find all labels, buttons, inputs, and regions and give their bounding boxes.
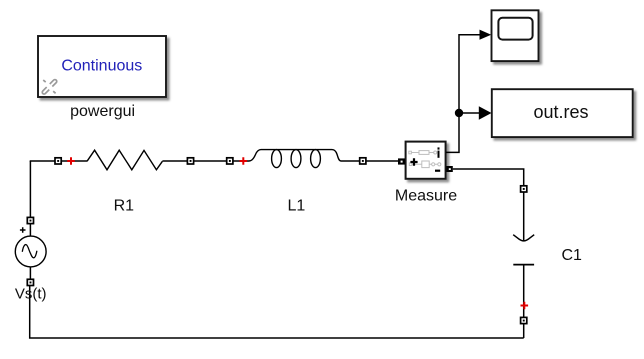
node: port square after R1	[187, 158, 193, 164]
AC source Vs(t)	[15, 236, 46, 267]
svg-text:Measure: Measure	[395, 187, 457, 204]
Measure right output port	[446, 166, 452, 172]
inductor L1	[249, 150, 341, 168]
wire: main row left segment	[30, 160, 87, 162]
source polarity + (black)	[20, 227, 26, 233]
resistor R1	[87, 150, 162, 170]
polarity + (red) at capacitor bottom	[521, 302, 529, 310]
arrowhead into out.res	[479, 106, 492, 120]
capacitor C1 top curved plate	[513, 235, 534, 241]
svg-text:Vs(t): Vs(t)	[15, 286, 47, 303]
internal gray schematic bottom row	[409, 161, 441, 168]
junction node dot	[455, 109, 463, 117]
polarity + (red) before L1	[240, 157, 248, 165]
node: port square below source	[27, 279, 33, 285]
Measure left input port	[398, 158, 405, 164]
minus sign inside Measure	[435, 170, 440, 172]
i label inside Measure	[438, 147, 440, 157]
wire: source bottom vertical	[29, 267, 31, 286]
powergui block	[38, 36, 166, 97]
node: port square at capacitor bottom	[521, 317, 527, 323]
node: port square on capacitor top wire	[521, 186, 527, 192]
svg-text:R1: R1	[114, 198, 135, 215]
wire: between L1 and Measure	[341, 160, 398, 162]
svg-text:powergui: powergui	[70, 103, 135, 120]
wire: measure output to capacitor top	[453, 169, 524, 241]
node: port square after source corner	[55, 158, 61, 164]
scope block U_scope	[492, 10, 539, 61]
svg-text:Continuous: Continuous	[61, 57, 142, 74]
svg-text:L1: L1	[288, 198, 306, 215]
wire: bottom rail	[30, 286, 524, 338]
node: port square after L1	[360, 158, 366, 164]
node: port square above source	[27, 217, 33, 223]
powergui broken-link icon	[42, 79, 58, 95]
capacitor C1 bottom plate	[513, 264, 534, 266]
internal gray schematic top row	[409, 151, 437, 155]
node: port square before L1	[227, 158, 233, 164]
wire: capacitor bottom down to bottom rail	[523, 265, 525, 338]
wire: between R1 and L1	[162, 160, 249, 162]
out.res block	[492, 89, 633, 137]
polarity + (red) before R1	[67, 157, 75, 165]
arrowhead into scope	[480, 30, 492, 40]
wire: branch to out.res	[459, 112, 480, 114]
wire: i output to scope (up)	[446, 35, 481, 153]
Measure block U1	[406, 142, 446, 179]
svg-text:out.res: out.res	[533, 102, 588, 122]
wire: source top vertical	[29, 161, 31, 236]
plus sign inside Measure	[410, 158, 417, 165]
svg-text:C1: C1	[561, 247, 582, 264]
